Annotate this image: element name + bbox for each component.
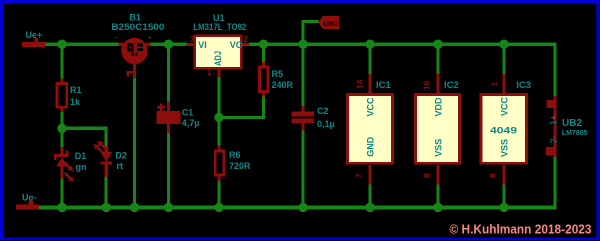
svg-text:LM317L_TO92: LM317L_TO92 [193,22,246,32]
wire right column lower [554,157,557,209]
node bottom C1 [164,203,173,212]
svg-text:14: 14 [355,79,365,89]
svg-text:1k: 1k [70,97,81,107]
node bottom IC3 [499,203,508,212]
wire UB2 flag horizontal [302,20,319,23]
svg-text:VDD: VDD [433,97,443,117]
svg-text:D2: D2 [115,151,127,161]
wire D2 bottom [105,177,108,206]
terminal Ue+ stub [22,38,46,47]
svg-text:16: 16 [422,80,432,90]
connector pin 1 [547,100,555,108]
node bottom IC2 [433,203,442,212]
resistor R5 [259,62,268,97]
svg-text:4,7µ: 4,7µ [182,118,200,128]
svg-text:2: 2 [244,34,249,44]
IC2 power box [415,74,459,184]
svg-text:1+: 1+ [549,115,559,125]
wire right column upper [554,42,557,96]
svg-text:1: 1 [490,82,500,87]
node top rail IC1 [365,40,374,49]
svg-text:R5: R5 [272,69,284,79]
svg-text:4049: 4049 [490,125,517,136]
IC3 power box 4049 [481,74,527,184]
svg-text:VSS: VSS [499,139,509,157]
wire regulator to right corner [249,42,556,46]
svg-text:1: 1 [207,67,212,77]
node top rail R1 [57,40,66,49]
connector pin 2 [546,147,554,156]
svg-text:C2: C2 [317,106,329,116]
svg-text:LM7805: LM7805 [562,130,588,137]
node bottom D1 [57,203,66,212]
node bottom IC1 [365,203,374,212]
svg-text:B250C1500: B250C1500 [111,22,164,32]
resistor R6 [215,146,224,182]
wire bottom rail [39,206,557,210]
wire IC1 gnd [369,184,372,206]
node top rail C1 [164,40,173,49]
net flag UB2 [318,16,339,29]
svg-text:C1: C1 [182,108,194,118]
svg-text:3: 3 [190,34,195,44]
svg-text:7: 7 [354,173,364,178]
wire C2 top [302,44,305,106]
wire adj node horizontal [218,116,266,119]
connector X1 body [546,96,556,157]
IC1 power box [347,74,392,184]
svg-text:720R: 720R [229,161,251,171]
svg-text:~: ~ [115,33,120,42]
capacitor C2 [292,106,315,131]
LED D2 [92,139,112,177]
wire top rail left [45,42,119,46]
wire IC1 vcc [369,44,372,74]
svg-text:8: 8 [422,173,432,178]
wire R5 top [262,44,265,63]
node top rail IC3 [499,40,508,49]
node divider [57,124,66,133]
terminal Ue- stub [16,200,39,209]
svg-text:240R: 240R [272,80,294,90]
svg-text:rt: rt [117,161,124,171]
resistor R1 [57,78,67,112]
svg-text:Ue-: Ue- [22,193,37,203]
wire bridge to regulator [150,42,188,46]
svg-text:GND: GND [365,136,375,157]
svg-text:2-: 2- [549,135,559,143]
svg-text:8: 8 [488,173,498,178]
svg-text:+: + [148,35,152,42]
wire branch to D2 [61,127,108,130]
svg-text:R6: R6 [229,150,241,160]
svg-text:VSS: VSS [433,139,443,157]
svg-text:Ue+: Ue+ [26,30,43,40]
wire IC2 vdd [437,44,440,74]
node adj [214,113,223,122]
svg-text:IC2: IC2 [444,80,459,91]
svg-text:© H.Kuhlmann 2018-2023: © H.Kuhlmann 2018-2023 [450,222,592,236]
capacitor C1 polarized [156,102,180,134]
node bottom C2 [298,203,307,212]
node bottom bridge [130,203,139,212]
wire bridge minus down [133,78,136,207]
svg-text:IC3: IC3 [516,80,531,91]
node top rail IC2 [433,40,442,49]
wire D1 bottom [61,178,64,206]
svg-text:UB2: UB2 [323,19,338,28]
svg-text:D1: D1 [75,151,87,161]
wire IC3 vcc [503,44,506,74]
wire D2 top [105,128,108,146]
svg-text:gn: gn [76,162,87,172]
node bottom D2 [102,203,111,212]
svg-text:ADJ: ADJ [213,51,223,66]
bridge rectifier B1 [119,38,151,78]
wire R1 bottom to D1 [61,112,64,148]
svg-text:R1: R1 [70,85,82,95]
wire R6 bottom [218,181,221,206]
svg-text:0,1µ: 0,1µ [317,119,335,129]
node top rail R5 [259,40,268,49]
wire C1 top [167,44,170,102]
wire C2 bottom [302,130,305,206]
voltage regulator U1 LM317 [187,36,250,77]
svg-text:VCC: VCC [499,96,509,116]
wire R1 top [61,44,64,79]
svg-text:VO: VO [230,40,243,50]
svg-text:VCC: VCC [365,97,375,117]
LED D1 [54,147,76,184]
wire IC2 vss [437,184,440,206]
wire R5 bottom [262,96,265,118]
wire C1 bottom [167,133,170,206]
svg-text:UB2: UB2 [562,118,582,129]
node top rail UB2 [298,40,307,49]
wire ADJ down [218,77,221,149]
node bottom R6 [214,203,223,212]
svg-text:VI: VI [198,40,207,50]
wire UB2 flag riser [302,20,305,45]
svg-text:IC1: IC1 [376,80,392,91]
wire IC3 vss [503,184,506,206]
